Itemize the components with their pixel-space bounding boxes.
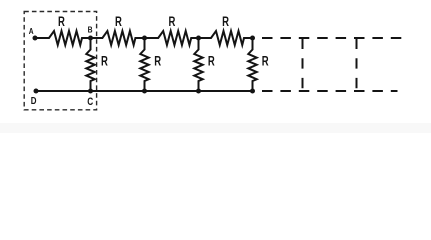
resistor R series 3 (node 2 to node 3) <box>145 31 199 45</box>
resistor R series 1 (A to B) <box>35 31 91 45</box>
resistor R series 4 (node 3 to node 4) <box>199 31 253 45</box>
dashed section box around A-B-C-D <box>24 12 96 110</box>
svg-text:C: C <box>87 96 93 108</box>
node top 2 (junction dot) <box>142 36 147 41</box>
svg-text:A: A <box>29 26 34 36</box>
node B (junction dot) <box>88 36 93 41</box>
node top 4 (junction dot) <box>250 36 255 41</box>
resistor R shunt 2 (node 2 to bottom rail) <box>140 38 148 91</box>
wire vertical dashed continuation 1 <box>302 39 304 89</box>
svg-text:D: D <box>31 95 37 106</box>
node C (junction dot) <box>88 89 93 94</box>
resistor R shunt 3 (node 3 to bottom rail) <box>194 38 202 91</box>
resistor R shunt 1 (B to C) <box>86 38 94 91</box>
wire bottom rail (D to node 4 bottom) <box>36 90 253 92</box>
node top 3 (junction dot) <box>196 36 201 41</box>
node D (junction dot) <box>34 89 39 94</box>
svg-text:R: R <box>101 53 108 69</box>
resistor R shunt 4 (node 4 to bottom rail) <box>248 38 256 91</box>
bottom gray band <box>0 123 431 133</box>
svg-text:R: R <box>208 53 215 69</box>
svg-text:B: B <box>88 25 93 35</box>
resistor R series 2 (B to node 2) <box>91 31 145 45</box>
node A (junction dot) <box>33 36 38 41</box>
wire vertical dashed continuation 2 <box>356 39 358 89</box>
svg-text:R: R <box>169 13 176 29</box>
svg-text:R: R <box>58 13 65 29</box>
wire top rail dashed continuation <box>262 37 402 39</box>
node bottom 2 (junction dot) <box>142 89 147 94</box>
node bottom 3 (junction dot) <box>196 89 201 94</box>
svg-text:R: R <box>262 53 269 69</box>
svg-text:R: R <box>222 13 229 29</box>
wire bottom rail dashed continuation <box>262 90 398 92</box>
svg-text:R: R <box>154 53 161 69</box>
node bottom 4 (junction dot) <box>250 89 255 94</box>
svg-text:R: R <box>115 13 122 29</box>
